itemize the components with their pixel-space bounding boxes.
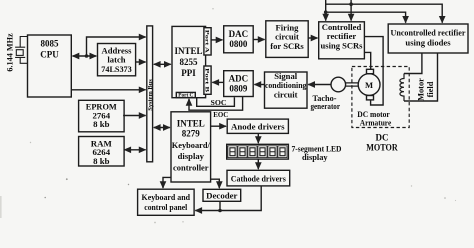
svg-text:SOC: SOC (211, 99, 227, 107)
IC U1 INTEL 8255 PPI (172, 26, 206, 97)
svg-text:MOTOR: MOTOR (366, 143, 398, 153)
svg-text:8085: 8085 (41, 39, 60, 49)
svg-text:display: display (302, 153, 328, 162)
port C (176, 92, 195, 98)
svg-text:Port C: Port C (178, 94, 193, 99)
memory RAM 6264 (79, 137, 125, 167)
svg-text:generator: generator (311, 102, 341, 111)
wire junction up and right to system bus (87, 37, 146, 56)
svg-text:6.144 MHz: 6.144 MHz (5, 33, 14, 72)
wire anode drivers to display (257, 133, 259, 143)
svg-text:using SCRs: using SCRs (321, 41, 364, 51)
system bus bar (147, 26, 154, 162)
wire SOC from port C to ADC (197, 97, 235, 106)
wire cathode drivers and decoder to keyboard (195, 186, 261, 211)
svg-text:Cathode drivers: Cathode drivers (231, 173, 287, 183)
svg-text:8279: 8279 (182, 129, 201, 139)
svg-text:for SCRs: for SCRs (270, 41, 304, 51)
svg-text:INTEL: INTEL (174, 46, 202, 56)
crystal X1 6.144 MHz (5, 33, 27, 72)
anode drivers (227, 119, 288, 133)
svg-text:Armature: Armature (360, 118, 392, 127)
wire DAC to firing circuit (253, 39, 264, 41)
svg-text:8 kb: 8 kb (93, 156, 109, 166)
DAC 0800 (224, 26, 254, 53)
wire uncontrolled rectifier left output to field (404, 53, 422, 74)
svg-text:Motor: Motor (417, 78, 426, 101)
svg-text:display: display (178, 151, 205, 161)
dashed enclosure DC motor armature (352, 67, 409, 128)
wire system bus to 8279 (bidirectional) (154, 127, 170, 129)
svg-text:circuit: circuit (274, 90, 298, 100)
wire AC lower branch (326, 12, 406, 23)
label 7-segment LED display (292, 145, 342, 163)
label motor field (417, 78, 435, 101)
wire uncontrolled rectifier right output to field (404, 53, 438, 101)
svg-text:DAC: DAC (229, 29, 249, 39)
svg-text:Uncontrolled rectifier: Uncontrolled rectifier (391, 28, 466, 38)
svg-text:EOC: EOC (213, 111, 228, 119)
label DC MOTOR (366, 133, 398, 153)
display 7-segment LED (227, 144, 289, 159)
address latch 74LS373 (98, 44, 136, 76)
node junction on CPU-latch wire (85, 54, 89, 58)
tacho-generator G (311, 77, 346, 111)
svg-text:System Bus: System Bus (147, 79, 154, 111)
svg-text:Keyboard and: Keyboard and (142, 192, 191, 202)
AC supply line 2 (350, 0, 352, 21)
wire tacho to signal conditioning (308, 84, 331, 86)
svg-text:using diodes: using diodes (405, 38, 451, 48)
svg-text:8 kb: 8 kb (93, 119, 109, 129)
wire AC upper branch (326, 4, 443, 23)
wire firing circuit to controlled rectifier (308, 37, 317, 39)
svg-text:latch: latch (107, 55, 125, 65)
svg-text:0809: 0809 (229, 84, 248, 94)
AC supply line 1 (325, 0, 327, 21)
wire 8279 to keyboard (163, 177, 171, 188)
port B (203, 66, 211, 94)
svg-text:Port B: Port B (203, 68, 209, 92)
svg-text:PPI: PPI (181, 68, 196, 78)
svg-text:controller: controller (173, 162, 209, 172)
inductor motor field coil (400, 74, 404, 102)
svg-text:Anode drivers: Anode drivers (231, 121, 285, 131)
wire decoder down to junction (219, 201, 221, 210)
port A (203, 28, 211, 55)
keyboard and control panel (138, 189, 195, 215)
svg-text:DC: DC (376, 133, 389, 143)
wire RAM to system bus (bidirectional) (124, 149, 145, 151)
firing circuit for SCRs (266, 21, 308, 58)
node junction dot (218, 209, 222, 213)
wire latch to system bus (136, 61, 146, 63)
node dot lower (324, 10, 328, 14)
wire 8279 to decoder (211, 179, 220, 188)
wire EPROM to system bus (123, 115, 146, 117)
svg-text:74LS373: 74LS373 (101, 65, 131, 74)
svg-text:0800: 0800 (229, 39, 248, 49)
wire CPU data/control to system bus (71, 89, 145, 91)
svg-text:8255: 8255 (180, 57, 199, 67)
ADC 0809 (224, 71, 254, 97)
svg-text:conditioning: conditioning (265, 80, 307, 90)
IC U2 INTEL 8279 keyboard/display controller (171, 112, 211, 182)
wire display to cathode drivers (257, 159, 259, 169)
svg-text:CPU: CPU (40, 50, 59, 60)
memory EPROM 2764 (79, 100, 125, 132)
wire controlled rectifier output B to armature top (364, 52, 370, 69)
svg-text:INTEL: INTEL (177, 119, 205, 129)
svg-text:M: M (365, 80, 373, 90)
svg-text:Decoder: Decoder (206, 191, 237, 201)
wire controlled rectifier output A to armature (364, 37, 383, 105)
controlled rectifier using SCRs (319, 22, 365, 59)
wire ADC to port B (212, 81, 223, 83)
decoder (203, 189, 241, 201)
wire EOC from ADC to port C (189, 97, 243, 111)
wire system bus to 8255 (bidirectional) (154, 63, 171, 65)
CPU 8085 (28, 35, 72, 97)
svg-text:Keyboard/: Keyboard/ (172, 140, 211, 150)
motor M armature (358, 69, 380, 100)
signal conditioning circuit (265, 71, 308, 108)
wire signal conditioning to ADC (254, 84, 264, 86)
wire 8279 to anode drivers (211, 125, 226, 127)
node dot upper (349, 2, 353, 6)
svg-text:ADC: ADC (229, 74, 249, 84)
shaft tacho to motor (346, 83, 359, 86)
cathode drivers (227, 170, 290, 186)
svg-text:Port A: Port A (203, 30, 209, 53)
wire CPU to address latch (bidirectional) (73, 55, 97, 57)
wire port A to DAC (211, 39, 222, 41)
svg-text:field: field (426, 81, 435, 97)
uncontrolled rectifier using diodes (388, 24, 468, 53)
svg-text:control panel: control panel (144, 202, 188, 212)
